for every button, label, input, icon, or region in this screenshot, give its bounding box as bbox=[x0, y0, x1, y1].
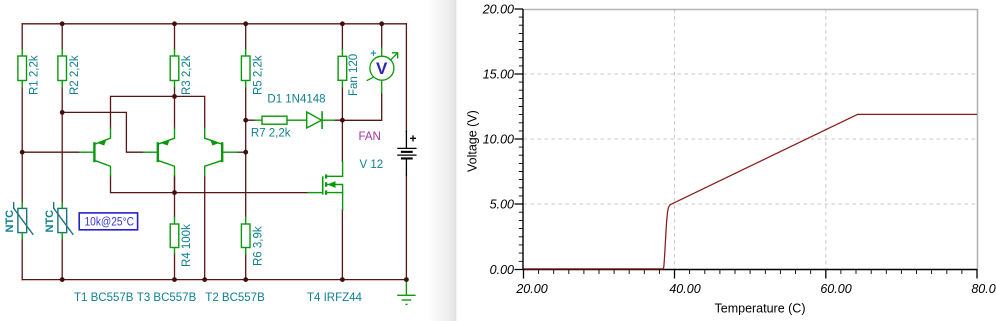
y axis labels bbox=[482, 3, 514, 278]
svg-text:40.00: 40.00 bbox=[669, 282, 700, 296]
wire top supply rail bbox=[22, 23, 406, 25]
x axis labels bbox=[515, 282, 996, 296]
wire T2 base to R5 column bbox=[238, 151, 246, 153]
wire column R3/R4 and T3 bbox=[174, 24, 176, 280]
svg-text:NTC: NTC bbox=[4, 210, 16, 233]
x major ticks bbox=[524, 270, 978, 279]
svg-text:V 12: V 12 bbox=[360, 159, 384, 171]
svg-text:Voltage (V): Voltage (V) bbox=[466, 110, 480, 172]
wire battery column bbox=[405, 24, 407, 280]
transistor T1 bbox=[80, 128, 111, 176]
svg-text:80.00: 80.00 bbox=[971, 282, 996, 296]
svg-text:R5 2,2k: R5 2,2k bbox=[253, 55, 265, 95]
svg-text:T2 BC557B: T2 BC557B bbox=[205, 292, 265, 304]
voltmeter V bbox=[367, 48, 398, 93]
chart border top/right (gray) bbox=[524, 10, 978, 270]
SCHEMATIC PANEL bbox=[22, 24, 406, 280]
svg-text:R1 2,2k: R1 2,2k bbox=[29, 55, 41, 95]
svg-text:20.00: 20.00 bbox=[482, 3, 514, 17]
resistor R1 bbox=[18, 50, 27, 88]
svg-text:5.00: 5.00 bbox=[490, 198, 514, 212]
resistor R3 bbox=[170, 50, 179, 88]
resistor R2 bbox=[58, 50, 67, 88]
svg-text:T1 BC557B: T1 BC557B bbox=[74, 292, 134, 304]
curve voltage vs temperature bbox=[524, 114, 978, 269]
y minor ticks bbox=[519, 17, 523, 261]
chart axes (black) bbox=[523, 9, 978, 270]
wire R2 junction to T3 base bbox=[62, 112, 143, 152]
transistor T3 bbox=[144, 128, 175, 176]
schematic labels bbox=[4, 54, 383, 304]
svg-text:Temperature (C): Temperature (C) bbox=[715, 302, 806, 316]
svg-text:0.00: 0.00 bbox=[490, 263, 514, 277]
thermistor NTC2 bbox=[54, 203, 73, 235]
wire bottom ground rail bbox=[22, 279, 406, 281]
wire node A to T1 base bbox=[22, 151, 79, 153]
wire voltmeter column bbox=[342, 24, 381, 121]
resistor R5 bbox=[241, 50, 250, 88]
x minor ticks bbox=[539, 270, 962, 275]
svg-text:10k@25°C: 10k@25°C bbox=[85, 217, 135, 229]
resistor R4 bbox=[170, 217, 179, 254]
svg-text:Fan 120: Fan 120 bbox=[348, 54, 360, 96]
resistor R6 bbox=[241, 217, 250, 254]
battery V 12 bbox=[398, 131, 416, 175]
wire R7/D1 row bbox=[246, 119, 343, 121]
NTC value callout box bbox=[79, 213, 137, 230]
wire column Fan/T4 drain-source bbox=[341, 24, 343, 280]
thermistor NTC1 bbox=[14, 203, 33, 235]
svg-text:+: + bbox=[370, 48, 376, 60]
svg-text:10.00: 10.00 bbox=[483, 133, 514, 147]
mosfet T4 bbox=[308, 162, 343, 210]
wire column R5/R6 bbox=[245, 24, 247, 280]
svg-text:+: + bbox=[410, 132, 417, 146]
wire T2 collector to ground rail bbox=[204, 176, 206, 280]
svg-text:T3 BC557B: T3 BC557B bbox=[137, 292, 197, 304]
svg-text:V: V bbox=[376, 59, 388, 78]
svg-text:15.00: 15.00 bbox=[483, 68, 514, 82]
panel divider shadow bbox=[428, 0, 456, 321]
wire left rail column R1/NTC1 bbox=[21, 24, 23, 280]
transistor T2 bbox=[205, 128, 238, 176]
svg-text:T4 IRFZ44: T4 IRFZ44 bbox=[307, 292, 363, 304]
svg-text:R6 3,9k: R6 3,9k bbox=[253, 226, 265, 266]
svg-text:60.00: 60.00 bbox=[820, 282, 851, 296]
wire column R2/NTC2 bbox=[61, 24, 63, 280]
fan load Fan 120 bbox=[338, 50, 347, 88]
svg-text:D1 1N4148: D1 1N4148 bbox=[267, 94, 325, 106]
CHART PANEL bbox=[466, 3, 996, 316]
svg-text:R7 2,2k: R7 2,2k bbox=[251, 128, 291, 140]
chart gridlines bbox=[524, 9, 978, 270]
wire gate row from T1 collector bbox=[111, 176, 309, 193]
svg-text:FAN: FAN bbox=[359, 131, 381, 143]
svg-text:R4 100k: R4 100k bbox=[181, 224, 193, 267]
y major ticks bbox=[515, 9, 524, 270]
wire emitter node horizontal bbox=[111, 96, 205, 128]
diode D1 bbox=[307, 112, 335, 128]
svg-text:20.00: 20.00 bbox=[515, 282, 547, 296]
svg-text:NTC: NTC bbox=[44, 210, 56, 233]
ground bbox=[398, 280, 415, 305]
svg-text:R2 2,2k: R2 2,2k bbox=[69, 55, 81, 95]
svg-text:R3 2,2k: R3 2,2k bbox=[181, 55, 193, 95]
resistor R7 bbox=[255, 116, 307, 124]
